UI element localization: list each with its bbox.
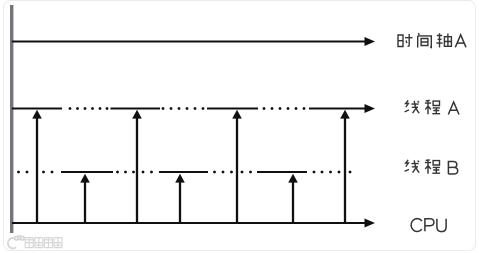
letter B (thread B label) — [448, 162, 457, 175]
up arrow CPU to thread A #3 — [232, 110, 242, 223]
线 — [405, 100, 420, 113]
时 — [398, 34, 413, 47]
vertical axis bar — [10, 5, 13, 233]
up arrow CPU to thread A #4 — [340, 110, 350, 223]
watermark text — [25, 238, 62, 248]
程 — [425, 160, 440, 174]
up arrow CPU to thread B #2 — [175, 174, 185, 223]
label 时间轴A — [398, 33, 451, 47]
up arrow CPU to thread B #3 — [288, 174, 298, 223]
letter A (thread A label) — [448, 102, 459, 115]
up arrow CPU to thread A #2 — [132, 110, 142, 223]
thread A dotted segments — [69, 107, 306, 110]
程 — [425, 100, 440, 114]
letter A (time axis label) — [455, 35, 466, 48]
up arrow CPU to thread B #1 — [80, 174, 90, 223]
label 线程B — [405, 160, 441, 174]
thread B line — [61, 171, 307, 173]
watermark logo icon — [8, 236, 24, 249]
CPU line — [12, 219, 375, 228]
thread A line — [12, 108, 365, 110]
thread A arrowhead — [365, 104, 376, 113]
label CPU — [411, 219, 446, 232]
线 — [405, 160, 420, 173]
time axis arrow — [12, 37, 375, 46]
thread B dots — [17, 171, 351, 174]
间 — [418, 33, 432, 47]
up arrow CPU to thread A #1 — [32, 110, 42, 223]
label 线程A — [405, 100, 441, 114]
轴 — [436, 33, 451, 47]
